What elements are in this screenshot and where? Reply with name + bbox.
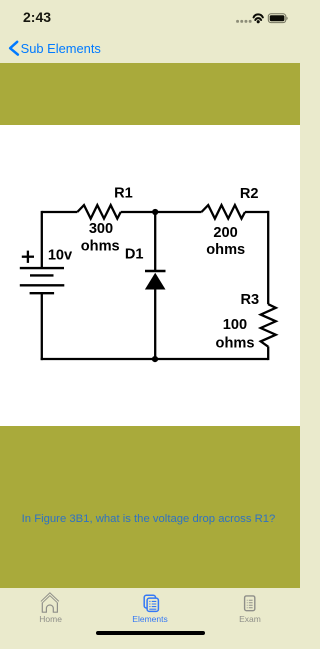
svg-text:ohms: ohms [216,335,255,351]
svg-text:10v: 10v [48,248,73,264]
svg-text:R2: R2 [240,186,259,202]
svg-text:ohms: ohms [81,238,120,254]
svg-text:ohms: ohms [206,242,245,258]
svg-text:R3: R3 [240,292,259,308]
svg-text:200: 200 [213,225,237,241]
svg-text:Sub Elements: Sub Elements [21,41,101,56]
svg-text:100: 100 [223,317,247,333]
svg-text:D1: D1 [125,246,144,262]
svg-text:R1: R1 [114,186,133,202]
svg-text:300: 300 [89,221,113,237]
